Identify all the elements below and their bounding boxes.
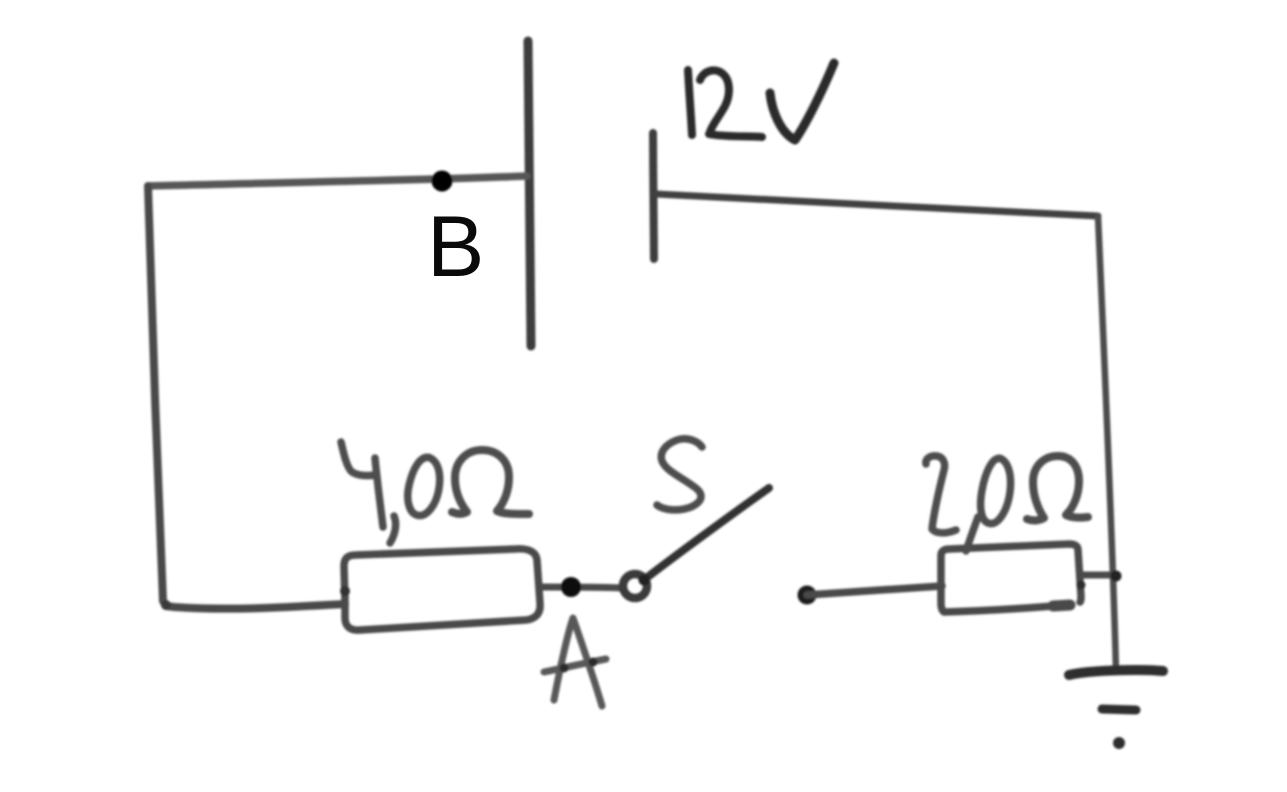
wire R2 to right vertical bbox=[1081, 572, 1117, 579]
ground bar 1 bbox=[1069, 670, 1163, 675]
switch lever bbox=[645, 488, 769, 579]
label A bbox=[544, 618, 606, 706]
junction blob stub/vertical bbox=[1111, 571, 1122, 582]
corner ink blob bbox=[161, 600, 171, 610]
node dot right branch bbox=[798, 586, 817, 605]
resistor R1 4.0ohm body bbox=[344, 549, 540, 630]
ground dot bbox=[1113, 737, 1125, 749]
label 12V bbox=[688, 63, 834, 140]
wire battery right plate to top-right corner bbox=[656, 194, 1098, 216]
node B dot bbox=[432, 171, 453, 192]
wire bottom horizontal to R1 bbox=[163, 601, 345, 609]
label 4,0ohm bbox=[341, 442, 529, 543]
label A ink blobs at intersections bbox=[560, 664, 569, 673]
wire R1 to node A to switch bbox=[540, 587, 622, 588]
switch lever pivot blob bbox=[639, 575, 650, 586]
wire left vertical bbox=[148, 186, 163, 601]
resistor R2 bottom edge end blob bbox=[1053, 605, 1070, 606]
ground bar 2 bbox=[1102, 709, 1136, 710]
resistor R2 2.0ohm body (left+top+right edges) bbox=[941, 544, 1081, 611]
label 2,0ohm bbox=[926, 456, 1088, 551]
switch S pivot circle bbox=[623, 574, 647, 598]
label S bbox=[657, 439, 702, 510]
battery plate long (left terminal) bbox=[528, 41, 531, 346]
resistor R2 bottom edge bbox=[944, 606, 1054, 612]
wire battery to node B and left bbox=[148, 176, 527, 186]
resistor R2 right edge ink blob bbox=[1077, 581, 1086, 590]
wire dot to R2 bbox=[807, 586, 942, 595]
svg-text:B: B bbox=[427, 199, 484, 295]
battery plate short (right terminal) bbox=[653, 133, 654, 259]
wire right vertical bbox=[1098, 216, 1116, 671]
node A dot bbox=[561, 577, 581, 597]
resistor R1 left edge ink blob bbox=[340, 586, 350, 596]
